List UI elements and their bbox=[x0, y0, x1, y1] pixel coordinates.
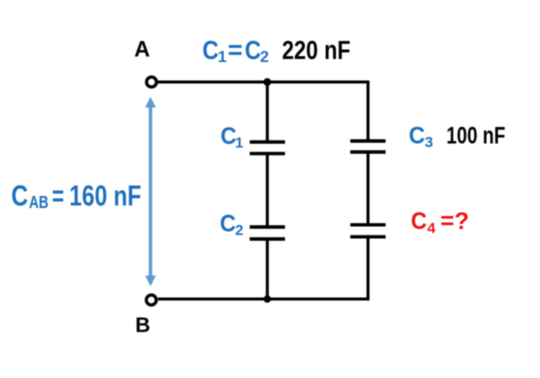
svg-text:1: 1 bbox=[235, 135, 243, 152]
svg-text:=?: =? bbox=[440, 208, 469, 235]
svg-text:C: C bbox=[409, 123, 426, 150]
svg-text:C: C bbox=[245, 37, 261, 65]
svg-text:160 nF: 160 nF bbox=[69, 181, 141, 213]
capacitor C4 bbox=[350, 225, 385, 237]
wire bottom (B to bottom-right corner) bbox=[158, 298, 370, 301]
terminal B (open circle) bbox=[146, 295, 156, 305]
svg-text:C: C bbox=[202, 37, 218, 65]
wire right branch lower (C4 to bottom-right corner) bbox=[367, 237, 370, 301]
capacitor C2 bbox=[250, 227, 285, 239]
svg-text:C: C bbox=[11, 181, 28, 213]
terminal A (open circle) bbox=[147, 77, 157, 87]
label C4 =? (red, unknown) bbox=[411, 208, 469, 237]
wire right branch upper (corner to C3) bbox=[367, 81, 370, 142]
svg-text:220 nF: 220 nF bbox=[282, 37, 351, 65]
junction dot bottom node bbox=[264, 295, 271, 302]
svg-text:2: 2 bbox=[235, 222, 243, 239]
capacitor C3 bbox=[350, 141, 385, 152]
svg-text:=: = bbox=[228, 37, 243, 65]
wire top (A to top-right corner) bbox=[158, 81, 370, 84]
label C2 bbox=[220, 211, 244, 239]
wire left branch middle (C1 to C2) bbox=[266, 154, 269, 227]
svg-text:C: C bbox=[411, 208, 427, 235]
wire left branch upper (top node to C1) bbox=[266, 82, 269, 143]
svg-text:A: A bbox=[134, 37, 150, 62]
wire right branch middle (C3 to C4) bbox=[367, 152, 370, 225]
wire left branch lower (C2 to bottom node) bbox=[266, 239, 269, 299]
svg-text:100 nF: 100 nF bbox=[446, 123, 505, 150]
junction dot top node bbox=[263, 78, 271, 86]
svg-text:1: 1 bbox=[218, 49, 227, 66]
arrow CAB (blue double-headed measurement arrow between A and B) bbox=[145, 97, 156, 286]
label C1 = C2 (title, blue part) bbox=[202, 37, 269, 66]
svg-text:B: B bbox=[135, 314, 150, 337]
svg-text:C: C bbox=[220, 211, 236, 238]
label C1 bbox=[221, 123, 244, 152]
svg-text:3: 3 bbox=[425, 134, 433, 151]
svg-text:=: = bbox=[52, 181, 64, 213]
svg-text:2: 2 bbox=[260, 49, 269, 66]
svg-text:AB: AB bbox=[29, 192, 49, 212]
label CAB = 160 nF bbox=[11, 181, 141, 213]
svg-text:4: 4 bbox=[427, 221, 436, 237]
label C3 100 nF bbox=[409, 123, 506, 151]
capacitor C1 bbox=[250, 142, 285, 154]
